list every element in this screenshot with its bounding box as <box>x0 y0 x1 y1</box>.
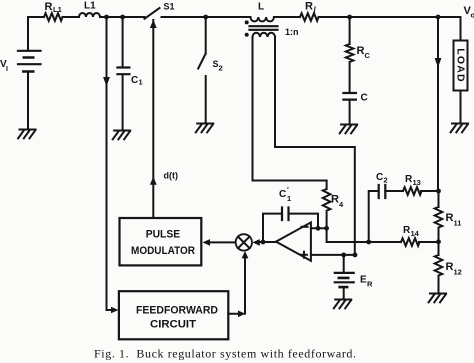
capacitor C <box>343 93 367 125</box>
svg-text:4: 4 <box>339 200 344 209</box>
svg-text:2: 2 <box>219 64 223 73</box>
wire (multiplier to pulse modulator) <box>210 241 236 243</box>
inductor L1 <box>79 1 100 18</box>
polarity dot (secondary) <box>245 33 249 37</box>
transformer secondary <box>253 33 276 37</box>
wire (secondary left to R4 top) <box>253 37 327 181</box>
wire (bus: Rl to Vo corner, down to LOAD) <box>319 17 461 41</box>
svg-text:R: R <box>357 45 365 57</box>
node (feedback joins output) <box>261 240 266 245</box>
battery VI <box>0 17 41 130</box>
arrow (into multiplier from op-amp) <box>252 239 259 246</box>
svg-text:C: C <box>131 75 138 86</box>
svg-text:R: R <box>331 194 339 206</box>
feedforward circuit box <box>119 291 228 339</box>
svg-text:2: 2 <box>384 176 388 185</box>
transformer primary L <box>251 2 274 22</box>
ground (LOAD) <box>451 124 468 133</box>
multiplier (X) <box>236 234 252 250</box>
svg-text:MODULATOR: MODULATOR <box>131 245 195 257</box>
arrow (down, feedforward line) <box>103 77 110 87</box>
node (feedforward tap) <box>104 15 109 20</box>
svg-text:R: R <box>367 280 373 289</box>
arrow (up into multiplier) <box>242 251 249 258</box>
svg-text:I: I <box>6 66 8 73</box>
svg-text:CIRCUIT: CIRCUIT <box>150 318 196 330</box>
pulse modulator box <box>120 218 202 265</box>
switch S2 <box>198 17 222 124</box>
ground (C) <box>340 125 357 134</box>
node (C1 tap) <box>120 15 125 20</box>
resistor Rl <box>300 1 319 21</box>
node (R13/R11 junction) <box>436 189 441 194</box>
resistor R14 <box>401 225 439 246</box>
svg-text:L1: L1 <box>53 5 62 14</box>
switch S1 <box>145 2 175 19</box>
resistor R4 <box>323 181 344 229</box>
node (S2 tap) <box>203 15 208 20</box>
svg-text:1: 1 <box>139 78 143 87</box>
svg-text:13: 13 <box>413 178 421 187</box>
svg-text:1: 1 <box>287 194 291 203</box>
resistor R12 <box>435 242 462 294</box>
resistor R11 <box>435 191 462 242</box>
node (R11/R14/R12 junction) <box>436 239 441 244</box>
ground (C1) <box>113 131 130 140</box>
wire (op-amp output to multiplier) <box>260 241 277 243</box>
node (C2 leg joins R14 row) <box>366 240 371 245</box>
capacitor C2 <box>369 172 403 242</box>
wire (bus: transformer to Rl) <box>274 16 300 18</box>
arrow (into feedforward box) <box>111 307 119 314</box>
op-amp U1 <box>276 222 311 260</box>
svg-text:14: 14 <box>411 229 420 238</box>
svg-text:R: R <box>446 261 454 273</box>
ground (ER) <box>334 300 351 309</box>
wire (bus: L1 to S1) <box>100 16 145 18</box>
svg-text:C: C <box>365 51 371 60</box>
node (transformer sense joins plus input) <box>353 253 358 258</box>
svg-text:′: ′ <box>287 185 289 194</box>
svg-text:C: C <box>376 172 383 183</box>
capacitor C1 <box>117 17 142 131</box>
node (R4 junction at minus input) <box>324 226 329 231</box>
svg-text:C: C <box>361 93 368 104</box>
wire (R14 row from minus input) <box>327 228 401 242</box>
resistor RC <box>346 17 371 92</box>
svg-text:12: 12 <box>454 268 462 277</box>
svg-text:1:n: 1:n <box>285 27 299 37</box>
ground (S2) <box>196 124 213 133</box>
wire (secondary right to op-amp + input) <box>275 37 355 255</box>
battery ER <box>335 255 373 300</box>
svg-text:Fig. 1. Buck regulator system: Fig. 1. Buck regulator system with feedf… <box>94 347 356 361</box>
wire d(t) control line <box>152 20 154 218</box>
svg-text:LOAD: LOAD <box>455 48 467 83</box>
arrow (right at feedforward output corner) <box>238 311 245 318</box>
wire (plus input) <box>311 254 355 256</box>
ground (battery VI) <box>18 130 35 139</box>
wire (bus: RL1 to L1) <box>63 16 80 18</box>
arrow (up, near S1) <box>150 20 157 28</box>
capacitor C1' (feedback) <box>263 185 318 242</box>
svg-text:R: R <box>446 212 454 224</box>
wire (bus: battery to RL1) <box>28 16 44 18</box>
arrow (up, above pulse modulator) <box>150 177 157 185</box>
transformer core <box>250 26 278 30</box>
arrow (down, Vo sense) <box>435 58 442 68</box>
resistor RL1 <box>44 1 62 21</box>
wire (feedforward output up to multiplier) <box>228 259 245 314</box>
svg-text:L1: L1 <box>84 1 96 12</box>
wire (bus: S1 to transformer) <box>162 16 251 18</box>
polarity dot (primary) <box>245 20 249 24</box>
svg-text:R: R <box>45 1 53 13</box>
ground (R12) <box>429 294 446 303</box>
node (Vo sense tap) <box>436 15 441 20</box>
svg-text:S1: S1 <box>164 2 175 12</box>
svg-text:o: o <box>471 11 474 20</box>
svg-text:E: E <box>360 275 367 286</box>
node (RC tap) <box>347 15 352 20</box>
svg-text:l: l <box>314 6 317 15</box>
svg-text:C: C <box>279 189 286 200</box>
resistor R13 <box>403 174 439 195</box>
load box <box>454 41 468 124</box>
node (feedback junction at minus input) <box>316 226 321 231</box>
svg-text:d(t): d(t) <box>164 171 179 181</box>
svg-text:11: 11 <box>454 219 462 228</box>
node (ER tap on plus input) <box>341 253 346 258</box>
svg-text:R: R <box>305 1 313 13</box>
svg-text:L: L <box>258 2 264 13</box>
wire (Vo sense down right side) <box>437 17 439 191</box>
wire (feedforward sense line) <box>107 17 112 310</box>
wire (minus input) <box>311 227 327 229</box>
svg-text:FEEDFORWARD: FEEDFORWARD <box>136 305 218 317</box>
arrow (into pulse modulator) <box>203 239 211 246</box>
svg-text:PULSE: PULSE <box>146 228 181 240</box>
